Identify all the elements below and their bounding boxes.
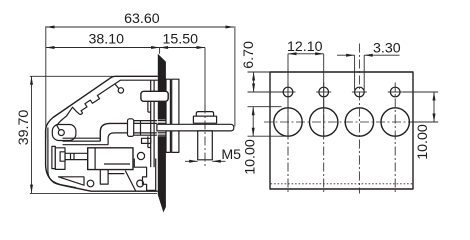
dimension 10.00 left bbox=[243, 107, 286, 175]
rear flange strip 2 bbox=[172, 79, 179, 152]
pipe elbow bbox=[100, 123, 127, 144]
bottom wedge foot bbox=[58, 177, 84, 185]
M5 screw shank bbox=[198, 131, 213, 160]
dimension 12.10 bbox=[287, 39, 324, 137]
bracket tab right of box bbox=[142, 138, 151, 143]
dimension 15.50 bbox=[160, 32, 205, 112]
svg-text:12.10: 12.10 bbox=[287, 39, 323, 55]
left view inner wall with DIN notch bbox=[48, 80, 158, 187]
bottom right bracket bbox=[134, 159, 155, 191]
black panel bar bbox=[158, 54, 166, 213]
small hole 3 bbox=[355, 87, 365, 97]
dimension 39.70 bbox=[16, 76, 157, 193]
svg-text:39.70: 39.70 bbox=[16, 110, 32, 146]
right view panel bbox=[270, 72, 413, 189]
screw circle C1 bbox=[58, 130, 64, 136]
dimension M5 bbox=[185, 147, 241, 163]
clamp box bbox=[88, 148, 133, 170]
large hole 4 bbox=[381, 108, 409, 136]
vertical centerline col1 bbox=[287, 83, 289, 194]
bottom circle left bbox=[87, 180, 94, 187]
dimension 38.10 bbox=[46, 32, 160, 49]
barrel lines bbox=[134, 121, 158, 136]
dimension 6.70 bbox=[241, 41, 283, 92]
large hole 3 bbox=[345, 108, 373, 136]
horizontal centerline large holes bbox=[264, 121, 418, 123]
svg-text:M5: M5 bbox=[221, 147, 241, 163]
dimension 63.60 bbox=[46, 11, 235, 139]
step above barrel bbox=[148, 101, 151, 147]
svg-text:10.00: 10.00 bbox=[243, 139, 259, 175]
svg-text:6.70: 6.70 bbox=[241, 41, 257, 69]
rear flange strip 1 bbox=[166, 79, 170, 152]
barrel lines across bar bbox=[158, 121, 167, 136]
screw circle C2 with tick bbox=[115, 84, 123, 93]
white crossing over bar at barrel level bbox=[157, 120, 167, 137]
vertical centerline col4 bbox=[394, 83, 396, 194]
barrel cap bbox=[128, 119, 134, 137]
vertical centerline col2 bbox=[323, 83, 325, 194]
bottom leg bbox=[100, 170, 108, 185]
bottom right diagonal bbox=[125, 171, 136, 192]
clamp screw shank bbox=[65, 153, 88, 159]
small hole 2 bbox=[319, 87, 329, 97]
svg-text:10.00: 10.00 bbox=[415, 124, 431, 160]
svg-text:3.30: 3.30 bbox=[373, 40, 401, 56]
left view outer outline bbox=[46, 76, 158, 191]
svg-text:63.60: 63.60 bbox=[124, 11, 160, 27]
large hole 1 bbox=[274, 108, 302, 136]
plate under box bbox=[108, 173, 124, 175]
bottom circle right bbox=[137, 180, 144, 187]
chamber floor lines bbox=[63, 138, 109, 145]
latch tab through panel bbox=[141, 91, 168, 101]
dimension 10.00 right bbox=[403, 92, 439, 160]
small hole 4 bbox=[390, 87, 400, 97]
vertical centerline col3 bbox=[358, 44, 360, 194]
box inner line bbox=[104, 163, 130, 165]
left clamp screw head bbox=[52, 146, 65, 169]
M5 screw centerline bbox=[204, 105, 206, 167]
M5 screw flange bbox=[193, 116, 216, 123]
M5 screw head cap bbox=[196, 112, 213, 117]
circle C3 bbox=[137, 152, 144, 159]
svg-text:15.50: 15.50 bbox=[163, 32, 199, 48]
dotted line near bottom bbox=[271, 183, 413, 185]
small hole cross ticks bbox=[281, 91, 403, 93]
clamping yoke plate bbox=[157, 124, 234, 131]
screw pocket lower-left bbox=[52, 124, 76, 140]
housing right wall verticals bbox=[151, 80, 154, 167]
dimension 3.30 bbox=[337, 40, 401, 90]
small hole 1 bbox=[283, 87, 293, 97]
large hole 2 bbox=[310, 108, 338, 136]
svg-text:38.10: 38.10 bbox=[89, 32, 125, 48]
